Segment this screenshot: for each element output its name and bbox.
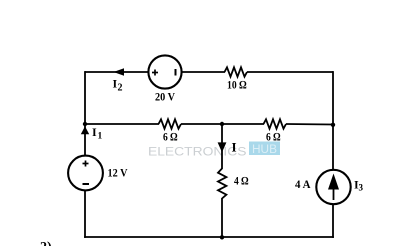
minus terminal (vertical bar) of 20V xyxy=(175,69,177,76)
plus terminal of 12V xyxy=(83,161,89,167)
wire right vertical lower (4A source to bottom) xyxy=(332,204,334,238)
node D junction dot xyxy=(220,235,224,239)
svg-text:6 Ω: 6 Ω xyxy=(266,132,281,144)
svg-text:6 Ω: 6 Ω xyxy=(163,132,178,144)
node C junction dot xyxy=(331,123,335,127)
wire middle horizontal left (node A to 6-ohm R2) xyxy=(85,123,159,125)
svg-text:10 Ω: 10 Ω xyxy=(227,80,247,92)
wire middle vertical upper (node B to 4-ohm resistor) xyxy=(221,124,223,169)
wire bottom horizontal xyxy=(84,236,334,238)
svg-text:HUB: HUB xyxy=(252,144,277,156)
wire 10-ohm resistor to top-right corner xyxy=(247,71,333,73)
wire middle horizontal right (R3 to node C) xyxy=(286,123,333,126)
watermark ELECTRONICS HUB xyxy=(148,142,280,159)
resistor 10 ohm xyxy=(225,67,248,76)
resistor 6 ohm left xyxy=(159,119,182,128)
wire 20V source to 10-ohm resistor xyxy=(182,71,226,73)
voltage source 12V (left) xyxy=(68,156,103,191)
minus terminal of 12V xyxy=(83,183,90,185)
current arrow I1 (pointing up on left wire) xyxy=(81,126,89,134)
wire right vertical upper (top-right corner to node C) xyxy=(332,71,334,125)
svg-text:I: I xyxy=(92,125,97,139)
svg-text:12 V: 12 V xyxy=(108,168,129,180)
wire left vertical upper (node A to top-left corner) xyxy=(84,71,86,124)
voltage source 20V (U-top) xyxy=(148,55,181,88)
current arrow I2 (pointing left on top wire) xyxy=(114,68,125,76)
wire left vertical (node A to 12V source) xyxy=(84,124,86,156)
resistor 6 ohm right xyxy=(264,119,287,128)
svg-text:4 A: 4 A xyxy=(295,179,311,191)
svg-text:2): 2) xyxy=(40,240,52,246)
wire top-left horizontal (node to 20V source) xyxy=(85,71,149,73)
resistor 4 ohm (vertical) xyxy=(218,169,226,199)
svg-text:2: 2 xyxy=(118,83,123,94)
current source 4A (right) xyxy=(316,170,350,204)
wire right vertical (node C to 4A source) xyxy=(332,125,334,170)
node B junction dot xyxy=(220,122,224,126)
svg-text:20 V: 20 V xyxy=(155,92,176,104)
svg-text:1: 1 xyxy=(98,132,103,142)
wire middle horizontal center (R2 to node B to R3) xyxy=(181,123,264,125)
arrow inside current source xyxy=(328,174,339,201)
svg-text:4 Ω: 4 Ω xyxy=(234,176,249,188)
wire middle vertical lower (4-ohm resistor to bottom node D) xyxy=(221,198,223,237)
node A junction dot xyxy=(83,122,87,126)
wire left vertical lower (12V source to bottom) xyxy=(84,191,86,238)
plus terminal of 20V xyxy=(152,70,158,76)
svg-text:I: I xyxy=(232,140,237,155)
current arrow I (pointing down on middle wire) xyxy=(218,142,227,152)
svg-text:3: 3 xyxy=(359,183,364,193)
